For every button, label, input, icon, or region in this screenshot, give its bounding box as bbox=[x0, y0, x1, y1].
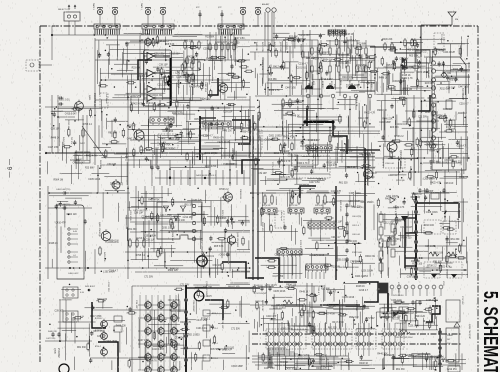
svg-text:C405 10/16: C405 10/16 bbox=[349, 193, 362, 195]
svg-text:R422 4.7K: R422 4.7K bbox=[172, 113, 183, 115]
svg-text:C71 50V: C71 50V bbox=[366, 318, 375, 320]
svg-text:C101 0.01: C101 0.01 bbox=[261, 60, 263, 71]
svg-text:6-4G: 6-4G bbox=[73, 231, 78, 233]
svg-text:R705-1: R705-1 bbox=[212, 358, 218, 360]
svg-text:C39 10P: C39 10P bbox=[223, 112, 232, 114]
svg-text:R61 330: R61 330 bbox=[108, 133, 117, 135]
svg-text:C28 1UF: C28 1UF bbox=[193, 200, 203, 202]
svg-text:R210 100: R210 100 bbox=[424, 225, 435, 227]
svg-text:C216 4.7: C216 4.7 bbox=[457, 146, 467, 148]
svg-text:C903 180P: C903 180P bbox=[140, 150, 152, 152]
svg-text:C71 50V: C71 50V bbox=[436, 359, 445, 361]
svg-text:R904 1W: R904 1W bbox=[231, 148, 233, 158]
svg-text:C410 0.047: C410 0.047 bbox=[422, 142, 435, 144]
svg-text:R207: R207 bbox=[308, 84, 310, 89]
svg-text:2SK118-B: 2SK118-B bbox=[239, 189, 241, 199]
svg-text:C212 25V: C212 25V bbox=[425, 322, 436, 324]
svg-text:C447 1/50: C447 1/50 bbox=[138, 340, 149, 342]
svg-text:R61 330: R61 330 bbox=[99, 160, 101, 169]
svg-text:C216 4.7: C216 4.7 bbox=[413, 194, 423, 196]
svg-text:TLT 474: TLT 474 bbox=[70, 137, 72, 145]
svg-text:C28 1UF: C28 1UF bbox=[446, 88, 456, 90]
svg-text:R417 470K: R417 470K bbox=[359, 154, 371, 156]
svg-text:R446 22K: R446 22K bbox=[382, 119, 393, 121]
svg-text:R23 68K: R23 68K bbox=[445, 120, 447, 129]
svg-text:C212 25V: C212 25V bbox=[107, 282, 109, 292]
svg-text:L201 10UH: L201 10UH bbox=[361, 270, 373, 272]
svg-text:R23 68K: R23 68K bbox=[289, 36, 298, 38]
svg-text:R448 1K: R448 1K bbox=[51, 138, 60, 140]
svg-text:R417 470K: R417 470K bbox=[393, 302, 405, 304]
svg-text:R904 1W: R904 1W bbox=[319, 359, 329, 361]
svg-text:C101 0.01: C101 0.01 bbox=[59, 99, 70, 101]
svg-text:C09 1.0: C09 1.0 bbox=[352, 225, 360, 227]
svg-text:R417 470K: R417 470K bbox=[148, 200, 160, 202]
svg-text:C903 180P: C903 180P bbox=[407, 43, 419, 45]
svg-text:R210 100: R210 100 bbox=[298, 359, 309, 361]
svg-text:C216 4.7(N): C216 4.7(N) bbox=[271, 162, 273, 174]
svg-text:C447 1/50: C447 1/50 bbox=[458, 87, 469, 89]
svg-text:C28 1UF: C28 1UF bbox=[444, 183, 454, 185]
svg-text:D201 1S953: D201 1S953 bbox=[110, 184, 123, 186]
svg-text:C39 10P: C39 10P bbox=[134, 213, 143, 215]
svg-text:C71 50V: C71 50V bbox=[285, 42, 287, 50]
svg-text:R409 4.7K: R409 4.7K bbox=[269, 90, 280, 92]
svg-text:R448 1K: R448 1K bbox=[170, 269, 179, 271]
svg-text:R448 1K: R448 1K bbox=[397, 312, 406, 314]
svg-text:C903 180P: C903 180P bbox=[106, 341, 118, 343]
svg-text:C08 0.01: C08 0.01 bbox=[352, 234, 361, 236]
svg-text:R05 5.6K: R05 5.6K bbox=[221, 210, 223, 220]
svg-text:R708 2.2: R708 2.2 bbox=[427, 265, 437, 267]
svg-text:R422 4.7K: R422 4.7K bbox=[132, 104, 143, 106]
svg-text:R23 68K: R23 68K bbox=[205, 36, 214, 38]
svg-text:C410 0.047: C410 0.047 bbox=[73, 163, 86, 165]
svg-text:C28 1UF: C28 1UF bbox=[146, 240, 156, 242]
svg-text:2SD2392: 2SD2392 bbox=[57, 348, 59, 358]
svg-text:R417 470K: R417 470K bbox=[189, 86, 201, 88]
svg-text:R409 4.7K: R409 4.7K bbox=[279, 177, 290, 179]
svg-text:L201 10UH: L201 10UH bbox=[281, 329, 293, 331]
svg-text:D201 1S953: D201 1S953 bbox=[161, 77, 174, 79]
svg-text:C71 50V: C71 50V bbox=[350, 261, 359, 263]
svg-text:C903 180P: C903 180P bbox=[379, 122, 391, 124]
svg-text:R417 470K: R417 470K bbox=[433, 51, 445, 53]
svg-text:R210 100: R210 100 bbox=[347, 241, 358, 243]
svg-text:R210 100: R210 100 bbox=[412, 263, 423, 265]
svg-text:R61 330: R61 330 bbox=[396, 369, 405, 371]
svg-text:R417 470K: R417 470K bbox=[284, 137, 296, 139]
svg-text:D201 1S953: D201 1S953 bbox=[336, 260, 349, 262]
svg-text:R448 1K: R448 1K bbox=[279, 362, 288, 364]
svg-text:R417 470K: R417 470K bbox=[385, 198, 397, 200]
svg-text:R417 470K: R417 470K bbox=[332, 322, 344, 324]
svg-text:R409 4.7K: R409 4.7K bbox=[316, 368, 327, 370]
svg-text:C447 1/50: C447 1/50 bbox=[291, 41, 302, 43]
svg-text:R904 1W: R904 1W bbox=[171, 232, 173, 242]
svg-text:R210 100: R210 100 bbox=[317, 356, 328, 358]
svg-text:R904 120: R904 120 bbox=[146, 103, 157, 105]
svg-text:L201 10UH: L201 10UH bbox=[129, 210, 131, 221]
svg-text:AM ANT: AM ANT bbox=[262, 3, 270, 6]
svg-text:R417 470K: R417 470K bbox=[261, 42, 263, 53]
svg-text:C101 0.01: C101 0.01 bbox=[296, 68, 307, 70]
svg-text:R417 470K: R417 470K bbox=[300, 146, 312, 148]
svg-text:C410 47P: C410 47P bbox=[266, 316, 277, 318]
svg-text:C410 0.047: C410 0.047 bbox=[321, 79, 334, 81]
svg-text:L201 10UH: L201 10UH bbox=[200, 296, 212, 298]
svg-text:R23 68K: R23 68K bbox=[186, 134, 195, 136]
svg-text:C28 1UF: C28 1UF bbox=[333, 221, 343, 223]
svg-text:C903 180P: C903 180P bbox=[168, 139, 180, 141]
svg-text:R904 120: R904 120 bbox=[365, 177, 376, 179]
svg-text:C212 25V: C212 25V bbox=[299, 35, 310, 37]
svg-text:R446 22K: R446 22K bbox=[222, 131, 233, 133]
svg-text:R904 1W: R904 1W bbox=[349, 317, 359, 319]
svg-text:C212 25V: C212 25V bbox=[288, 156, 299, 158]
svg-text:R61 330: R61 330 bbox=[433, 261, 442, 263]
svg-text:R448 1K: R448 1K bbox=[299, 292, 308, 294]
svg-text:C405 10/16: C405 10/16 bbox=[88, 179, 101, 181]
svg-text:R210 100: R210 100 bbox=[67, 120, 69, 130]
svg-text:R61 330: R61 330 bbox=[339, 183, 348, 185]
svg-text:R708 2.2: R708 2.2 bbox=[136, 255, 146, 257]
svg-text:C405 10/16: C405 10/16 bbox=[339, 200, 341, 212]
svg-text:— 9 —: — 9 — bbox=[6, 159, 12, 178]
svg-text:C216 4.7: C216 4.7 bbox=[127, 126, 137, 128]
svg-text:R23 68K: R23 68K bbox=[331, 267, 340, 269]
svg-text:R904 1W: R904 1W bbox=[242, 131, 252, 133]
svg-text:C06 47(D): C06 47(D) bbox=[352, 216, 362, 218]
svg-text:C212 25V: C212 25V bbox=[131, 96, 142, 98]
svg-text:R708 2.2: R708 2.2 bbox=[138, 76, 148, 78]
svg-text:R204 1.2K: R204 1.2K bbox=[388, 175, 398, 177]
svg-text:DET: DET bbox=[447, 339, 450, 341]
svg-text:R23 68K: R23 68K bbox=[232, 77, 241, 79]
svg-text:R23 68K: R23 68K bbox=[132, 68, 141, 70]
svg-text:C447 1/50: C447 1/50 bbox=[273, 276, 284, 278]
svg-text:R417 470K: R417 470K bbox=[159, 145, 171, 147]
svg-text:Lch Signal: Lch Signal bbox=[105, 94, 107, 104]
svg-text:C216 4.7: C216 4.7 bbox=[274, 153, 284, 155]
svg-text:R207: R207 bbox=[370, 84, 372, 89]
svg-text:C410 47P: C410 47P bbox=[265, 139, 276, 141]
svg-text:C28 1UF: C28 1UF bbox=[283, 115, 293, 117]
svg-text:R409 4.7K: R409 4.7K bbox=[180, 322, 191, 324]
svg-text:C101 0.01: C101 0.01 bbox=[393, 358, 404, 360]
svg-text:TA7668BP: TA7668BP bbox=[311, 159, 314, 170]
svg-text:R61 330: R61 330 bbox=[391, 319, 400, 321]
svg-text:R210 100: R210 100 bbox=[222, 197, 233, 199]
svg-text:R409 4.7K: R409 4.7K bbox=[355, 96, 357, 107]
svg-text:C39 10P: C39 10P bbox=[107, 164, 116, 166]
svg-text:Q705: Q705 bbox=[53, 348, 55, 354]
svg-text:R708 2.2: R708 2.2 bbox=[299, 240, 301, 250]
svg-text:C410 47P: C410 47P bbox=[331, 191, 342, 193]
svg-text:C410 0.047: C410 0.047 bbox=[65, 113, 78, 115]
svg-text:L201 10UH: L201 10UH bbox=[357, 68, 369, 70]
svg-text:I73N 8086P: I73N 8086P bbox=[192, 300, 194, 312]
svg-text:R210 100: R210 100 bbox=[342, 77, 353, 79]
svg-text:C101 0.01: C101 0.01 bbox=[345, 167, 356, 169]
svg-text:R23 68K: R23 68K bbox=[381, 317, 390, 319]
svg-text:R422 4.7K: R422 4.7K bbox=[409, 355, 420, 357]
svg-text:R448 1K: R448 1K bbox=[49, 243, 58, 245]
svg-text:SWS BODY: SWS BODY bbox=[85, 286, 96, 288]
svg-text:R207: R207 bbox=[321, 84, 323, 89]
svg-text:R904 1W: R904 1W bbox=[386, 89, 396, 91]
svg-text:C447 1/50: C447 1/50 bbox=[127, 139, 138, 141]
svg-text:R207: R207 bbox=[345, 84, 347, 89]
svg-text:R448 1K: R448 1K bbox=[291, 116, 300, 118]
svg-text:R904 120: R904 120 bbox=[401, 238, 412, 240]
svg-text:C212 25V: C212 25V bbox=[169, 53, 180, 55]
svg-text:L201 10UH: L201 10UH bbox=[355, 300, 357, 311]
svg-text:C212 25V: C212 25V bbox=[154, 54, 165, 56]
svg-text:C216 4.7: C216 4.7 bbox=[459, 104, 469, 106]
svg-text:C447 1/50: C447 1/50 bbox=[204, 82, 206, 93]
svg-text:R10 1.5W: R10 1.5W bbox=[289, 205, 298, 207]
svg-text:C101 0.01: C101 0.01 bbox=[196, 328, 207, 330]
svg-text:R23 68K: R23 68K bbox=[428, 98, 437, 100]
svg-text:R422 4.7K: R422 4.7K bbox=[280, 161, 291, 163]
svg-text:R417 470K: R417 470K bbox=[160, 215, 172, 217]
svg-text:C447 1/50: C447 1/50 bbox=[309, 182, 320, 184]
svg-text:R05 5.6K: R05 5.6K bbox=[276, 305, 286, 307]
svg-text:R210 100: R210 100 bbox=[261, 222, 263, 232]
svg-text:SELECT OUT: SELECT OUT bbox=[58, 9, 71, 11]
svg-text:R705-1: R705-1 bbox=[212, 328, 218, 330]
svg-text:C410 0.047: C410 0.047 bbox=[331, 137, 344, 139]
svg-text:R23 68K: R23 68K bbox=[425, 83, 434, 85]
svg-text:R409 4.7K: R409 4.7K bbox=[146, 361, 157, 363]
svg-text:R203 100: R203 100 bbox=[396, 180, 406, 182]
svg-text:C39 10P: C39 10P bbox=[407, 276, 416, 278]
svg-text:D201 1S953: D201 1S953 bbox=[205, 153, 218, 155]
svg-text:DA15 0005F R410 4.7: DA15 0005F R410 4.7 bbox=[196, 174, 217, 177]
svg-text:C405 10/16: C405 10/16 bbox=[426, 145, 439, 147]
svg-text:Q405 2SK118-B: Q405 2SK118-B bbox=[236, 232, 238, 248]
svg-text:R61 330: R61 330 bbox=[442, 73, 451, 75]
svg-text:C101 0.01: C101 0.01 bbox=[339, 55, 350, 57]
svg-text:L201 10UH: L201 10UH bbox=[443, 52, 455, 54]
svg-text:C39 10P: C39 10P bbox=[203, 287, 212, 289]
svg-text:C39 10P: C39 10P bbox=[281, 151, 290, 153]
svg-text:R417 470K: R417 470K bbox=[90, 316, 102, 318]
svg-text:R23 68K: R23 68K bbox=[390, 127, 399, 129]
svg-text:2SC2458-GR: 2SC2458-GR bbox=[93, 93, 96, 108]
svg-text:C405 10/16: C405 10/16 bbox=[285, 368, 298, 370]
svg-text:C71 50V: C71 50V bbox=[399, 59, 408, 61]
svg-text:C212 25V: C212 25V bbox=[447, 369, 458, 371]
svg-text:R409 4.7K: R409 4.7K bbox=[297, 163, 308, 165]
svg-text:C39 10P: C39 10P bbox=[213, 265, 222, 267]
svg-text:R417 470K: R417 470K bbox=[324, 314, 336, 316]
svg-text:C903 180P: C903 180P bbox=[223, 164, 235, 166]
svg-text:R446 22K: R446 22K bbox=[116, 326, 127, 328]
svg-text:C28 1UF: C28 1UF bbox=[281, 128, 283, 137]
svg-text:D201 1S953: D201 1S953 bbox=[162, 228, 175, 230]
svg-text:C212 25V: C212 25V bbox=[234, 61, 245, 63]
svg-text:C216 4.7: C216 4.7 bbox=[327, 292, 337, 294]
svg-text:R22 0.5W: R22 0.5W bbox=[262, 205, 271, 207]
svg-text:R207: R207 bbox=[356, 84, 358, 89]
svg-text:L201 10UH: L201 10UH bbox=[349, 201, 361, 203]
svg-text:C216 4.7: C216 4.7 bbox=[203, 49, 213, 51]
svg-text:R422 4.7K: R422 4.7K bbox=[453, 69, 464, 71]
svg-text:C212 25V: C212 25V bbox=[157, 84, 168, 86]
svg-text:C405 10/16: C405 10/16 bbox=[312, 255, 325, 257]
svg-text:C410 0.047: C410 0.047 bbox=[308, 140, 321, 142]
svg-text:D201 1S953: D201 1S953 bbox=[187, 334, 200, 336]
svg-text:R422 4.7K: R422 4.7K bbox=[402, 78, 413, 80]
svg-text:C405 10/16: C405 10/16 bbox=[217, 142, 230, 144]
svg-text:L201 10UH: L201 10UH bbox=[423, 179, 435, 181]
svg-text:SELECT VR5: SELECT VR5 bbox=[228, 286, 240, 288]
svg-text:C903 180P: C903 180P bbox=[148, 43, 160, 45]
svg-text:C24 16V(NP): C24 16V(NP) bbox=[255, 293, 267, 295]
svg-text:C447 1/50: C447 1/50 bbox=[196, 320, 207, 322]
svg-text:PHASE: PHASE bbox=[447, 334, 454, 337]
svg-text:D201 1S953: D201 1S953 bbox=[269, 136, 282, 138]
svg-text:C71 50V: C71 50V bbox=[231, 328, 240, 330]
svg-text:C39 10P: C39 10P bbox=[197, 261, 206, 263]
svg-text:R05 5.6K: R05 5.6K bbox=[214, 246, 224, 248]
svg-text:BT64-2: BT64-2 bbox=[95, 346, 101, 348]
svg-text:R23 68K: R23 68K bbox=[85, 168, 94, 170]
svg-text:R904 120: R904 120 bbox=[429, 151, 440, 153]
svg-text:C447 1/50: C447 1/50 bbox=[163, 131, 174, 133]
svg-text:C935 180P(NP) R904: C935 180P(NP) R904 bbox=[395, 337, 412, 339]
svg-text:FM: FM bbox=[455, 19, 458, 21]
svg-text:C447 1/50: C447 1/50 bbox=[264, 368, 275, 370]
svg-text:5. SCHEMATIC DI: 5. SCHEMATIC DI bbox=[479, 291, 500, 372]
svg-text:R708 2.2: R708 2.2 bbox=[267, 42, 269, 51]
svg-text:L201 10UH: L201 10UH bbox=[265, 285, 277, 287]
svg-text:C405 10/16: C405 10/16 bbox=[151, 148, 153, 160]
svg-text:C28 1UF: C28 1UF bbox=[356, 71, 366, 73]
svg-text:R448 1K: R448 1K bbox=[402, 75, 411, 77]
svg-text:L-4: L-4 bbox=[73, 255, 76, 257]
svg-text:C405 10/16: C405 10/16 bbox=[262, 363, 275, 365]
svg-text:R705-1: R705-1 bbox=[212, 343, 218, 345]
svg-text:C216 4.7: C216 4.7 bbox=[347, 40, 357, 42]
svg-text:6-1G: 6-1G bbox=[80, 292, 85, 294]
svg-text:R05 5.6K: R05 5.6K bbox=[409, 56, 419, 58]
svg-text:TAPE 1: TAPE 1 bbox=[140, 3, 143, 11]
svg-text:R417 470K: R417 470K bbox=[388, 239, 400, 241]
svg-text:R23 68K: R23 68K bbox=[357, 43, 366, 45]
svg-text:C101 0.01: C101 0.01 bbox=[408, 326, 419, 328]
svg-text:Mix Signal: Mix Signal bbox=[280, 212, 282, 221]
svg-text:R448 1K: R448 1K bbox=[344, 34, 353, 36]
svg-text:C101 0.01: C101 0.01 bbox=[396, 124, 407, 126]
svg-text:R708 2.2: R708 2.2 bbox=[417, 52, 427, 54]
svg-text:C406 0.022: C406 0.022 bbox=[68, 273, 79, 275]
svg-text:C39 10P: C39 10P bbox=[97, 336, 106, 338]
svg-text:C216 4.7: C216 4.7 bbox=[317, 286, 319, 296]
svg-text:R61 330: R61 330 bbox=[235, 40, 237, 49]
svg-text:C405 10/16: C405 10/16 bbox=[342, 297, 355, 299]
svg-text:C28 1UF: C28 1UF bbox=[425, 246, 435, 248]
svg-text:C39 10P: C39 10P bbox=[258, 173, 267, 175]
svg-text:C39 10P: C39 10P bbox=[182, 75, 191, 77]
svg-text:C405 10/16: C405 10/16 bbox=[428, 357, 441, 359]
svg-text:R417: R417 bbox=[80, 143, 86, 145]
svg-text:R61 330: R61 330 bbox=[185, 205, 194, 207]
svg-text:R422 4.7K: R422 4.7K bbox=[440, 267, 451, 269]
svg-text:R446 22K: R446 22K bbox=[384, 355, 395, 357]
svg-text:R904 1W: R904 1W bbox=[152, 95, 162, 97]
svg-text:R409 4.7K: R409 4.7K bbox=[312, 59, 323, 61]
svg-text:R23 68K: R23 68K bbox=[321, 289, 330, 291]
svg-text:R904 1W: R904 1W bbox=[377, 110, 387, 112]
svg-text:D201 1S953: D201 1S953 bbox=[273, 307, 286, 309]
svg-text:C212 25V: C212 25V bbox=[383, 222, 394, 224]
svg-text:C216 4.7: C216 4.7 bbox=[203, 135, 213, 137]
svg-text:C408 0.047(TD): C408 0.047(TD) bbox=[56, 189, 71, 191]
svg-text:R207: R207 bbox=[333, 84, 335, 89]
svg-text:R417 470K: R417 470K bbox=[321, 366, 333, 368]
svg-text:C410 47P: C410 47P bbox=[327, 165, 338, 167]
svg-text:R122 100K: R122 100K bbox=[352, 252, 363, 254]
svg-text:R61 330: R61 330 bbox=[128, 229, 137, 231]
svg-text:C101 0.01: C101 0.01 bbox=[203, 256, 214, 258]
svg-text:R448 1K: R448 1K bbox=[379, 77, 388, 79]
svg-text:Q301 TA7376P: Q301 TA7376P bbox=[468, 324, 471, 339]
svg-text:TV Signal: TV Signal bbox=[440, 34, 442, 44]
svg-text:C212 25V: C212 25V bbox=[183, 217, 194, 219]
svg-text:R448 1K: R448 1K bbox=[458, 113, 467, 115]
svg-text:R417 470K: R417 470K bbox=[273, 66, 285, 68]
svg-text:C405 10/16: C405 10/16 bbox=[176, 77, 189, 79]
svg-text:C212 25V: C212 25V bbox=[356, 65, 367, 67]
svg-text:C410 0.047: C410 0.047 bbox=[152, 349, 165, 351]
svg-text:R904 1W: R904 1W bbox=[343, 151, 353, 153]
svg-text:R448 1K: R448 1K bbox=[443, 109, 452, 111]
svg-text:R708 2.2: R708 2.2 bbox=[83, 124, 93, 126]
svg-text:C903 180P: C903 180P bbox=[422, 191, 434, 193]
svg-text:R210 100: R210 100 bbox=[433, 252, 444, 254]
svg-text:C410 47P: C410 47P bbox=[185, 81, 196, 83]
svg-text:TAPE 2: TAPE 2 bbox=[92, 3, 95, 11]
svg-text:R210 100: R210 100 bbox=[175, 220, 186, 222]
svg-text:R417 470K: R417 470K bbox=[169, 300, 181, 302]
svg-text:D201 1S953: D201 1S953 bbox=[355, 276, 368, 278]
svg-text:C71 50V: C71 50V bbox=[418, 117, 427, 119]
svg-text:R417 470K: R417 470K bbox=[205, 166, 217, 168]
svg-text:C28 1UF: C28 1UF bbox=[317, 53, 327, 55]
svg-text:D701 S1016: D701 S1016 bbox=[393, 295, 404, 297]
svg-text:R05 5.6K: R05 5.6K bbox=[449, 80, 459, 82]
svg-text:R446 22K: R446 22K bbox=[391, 60, 393, 70]
svg-text:C216 4.7: C216 4.7 bbox=[275, 255, 285, 257]
svg-text:C410 47P: C410 47P bbox=[358, 118, 369, 120]
svg-text:C212 25V: C212 25V bbox=[70, 160, 81, 162]
svg-text:R61 330: R61 330 bbox=[451, 239, 460, 241]
svg-text:R422 4.7K: R422 4.7K bbox=[103, 252, 105, 262]
svg-text:R422 4.7K: R422 4.7K bbox=[364, 113, 375, 115]
svg-text:R61 330: R61 330 bbox=[184, 41, 193, 43]
svg-text:C447 1/50: C447 1/50 bbox=[48, 147, 59, 149]
svg-text:C410 0.047: C410 0.047 bbox=[261, 300, 263, 312]
svg-text:R05 5.6K: R05 5.6K bbox=[315, 205, 324, 207]
svg-text:C405 10/16: C405 10/16 bbox=[357, 307, 370, 309]
svg-text:R446 22K: R446 22K bbox=[452, 162, 463, 164]
svg-text:C39 10P: C39 10P bbox=[135, 300, 137, 309]
svg-text:R904 1W: R904 1W bbox=[403, 89, 413, 91]
svg-text:C410 0.047: C410 0.047 bbox=[215, 42, 228, 44]
